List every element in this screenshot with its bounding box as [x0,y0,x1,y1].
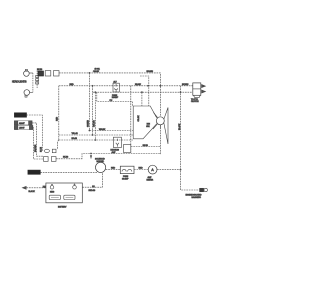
svg-text:RED: RED [57,116,59,121]
connector squares on headlight wires [36,75,39,77]
svg-text:SW.: SW. [146,126,150,128]
key switch stubs [153,113,160,130]
wire top bus y=73 [59,73,160,116]
svg-text:BK-WH: BK-WH [182,84,189,86]
left label 2 striped [14,121,32,125]
svg-text:METER: METER [147,179,154,181]
headlight lamp bottom [24,90,33,97]
wire y=86 main [59,85,193,87]
connector square male [45,71,51,76]
ammeter [148,165,157,174]
wire solenoid to fuse [106,168,121,170]
svg-text:30 AMP: 30 AMP [122,177,129,180]
wire bus foot to connector pair [58,140,59,149]
junction dots [89,72,182,171]
wire jog to switch top [97,92,133,106]
wire y=140 [59,139,133,141]
svg-text:RED: RED [139,168,144,170]
wire from label1 [27,115,44,151]
svg-text:BLACK: BLACK [29,190,36,193]
svg-text:RD-WH: RD-WH [147,71,154,73]
svg-text:RED-10: RED-10 [89,190,97,192]
connector square female [54,71,60,76]
wire vertical x=130.8 [130,86,132,153]
wire from pair row2 to switch [56,154,160,159]
harness connector dark box [38,71,44,76]
key switch circle [156,117,164,125]
interlock fuse box [120,166,134,173]
svg-text:MAGNETO: MAGNETO [192,196,202,199]
inline diode box on y140 [113,137,121,147]
wire stub y=76 to key switch [140,76,149,106]
svg-text:18 GA: 18 GA [95,68,101,71]
right bus vertical [181,86,200,190]
svg-text:BLUE: BLUE [41,146,43,152]
key switch flag [164,108,168,145]
wire from label2 [32,123,44,156]
svg-text:GREEN: GREEN [88,120,90,127]
battery ground arrow [22,186,27,190]
mower connector plug [193,83,206,97]
wire ammeter to right bus [157,169,181,171]
svg-text:20 AMP: 20 AMP [112,96,119,99]
svg-text:YEL-18: YEL-18 [72,133,79,135]
svg-text:OR-BK: OR-BK [138,115,140,122]
svg-text:RED: RED [70,84,75,86]
wire y=135 [59,134,133,136]
left label 3 striped [14,126,32,130]
wire from label3 [33,128,44,160]
ground strap label dark [28,170,40,174]
svg-text:BROWN: BROWN [35,144,37,152]
inline fuse F1 on top pair [113,83,119,92]
wire y=92 main [93,91,193,93]
wire left bus vertical x=58.8 [58,86,60,140]
connector oval pair [44,149,49,152]
wire ground strap to solenoid [40,171,97,173]
wire fuse to ammeter [134,169,148,171]
left label ACC dark [14,113,26,117]
vertical riser x=89.4 [88,73,90,131]
svg-text:WH-BK: WH-BK [99,129,106,131]
junction box under diode [124,145,131,153]
connector square pair row2 [44,157,49,162]
wire vertical to funnel [141,92,143,106]
svg-text:AMMT: AMMT [19,122,25,125]
battery box [46,183,82,203]
plus tick on battery wire [92,185,95,187]
svg-text:RED: RED [111,168,116,170]
ground arrow at wire [90,155,92,159]
solenoid [96,161,106,173]
svg-text:CLUTCH: CLUTCH [191,101,199,103]
key switch funnel [133,106,157,139]
svg-text:LIGHT: LIGHT [19,128,25,130]
svg-text:BATTERY: BATTERY [58,206,67,209]
ground wire tick [43,186,46,188]
svg-text:OR-BK: OR-BK [93,71,100,73]
wire battery to solenoid [82,172,102,187]
vertical riser x=95.3 [94,92,96,140]
battery cell hatches [51,196,73,198]
wire headlight verticals [33,71,39,93]
vertical riser x=92.5 [92,86,94,135]
svg-text:NEG: NEG [50,192,55,194]
svg-text:RD-BK: RD-BK [135,84,141,86]
svg-text:OR-WH: OR-WH [94,120,96,127]
wire y=147 under switch [131,146,161,148]
svg-text:HEAD LIGHTS: HEAD LIGHTS [12,81,27,84]
headlight lamp top [24,69,33,76]
wire switch down riser [159,125,161,155]
engine connector [200,188,208,191]
wire y=130.5 [89,130,133,132]
